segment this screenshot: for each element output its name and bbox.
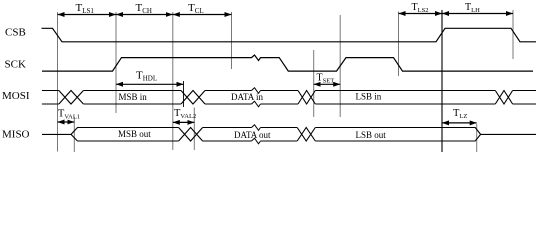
- marker line M7: [398, 12, 400, 77]
- arrow T_LZ: [442, 122, 477, 124]
- marker line S3: [193, 108, 195, 151]
- marker line S1: [183, 81, 185, 107]
- arrow T_LS1: [58, 14, 117, 16]
- marker line M5: [313, 50, 315, 117]
- arrow T_VAL1: [58, 121, 75, 123]
- svg-text:SCK: SCK: [5, 59, 26, 71]
- marker line M2: [115, 12, 117, 113]
- marker line S2: [73, 117, 75, 152]
- MOSI crossover XX4: [495, 91, 512, 105]
- svg-text:MOSI: MOSI: [2, 90, 30, 102]
- MOSI crossover XX2: [181, 91, 205, 105]
- marker line M3: [172, 12, 174, 150]
- marker line M4: [231, 12, 233, 69]
- marker line S4: [476, 124, 478, 152]
- arrow T_LS2: [399, 13, 443, 15]
- svg-text:DATA out: DATA out: [234, 130, 271, 140]
- svg-text:MISO: MISO: [2, 129, 30, 141]
- svg-text:MSB in: MSB in: [119, 92, 148, 102]
- marker line M9: [512, 10, 514, 59]
- signal SCK waveform: [42, 55, 533, 71]
- MOSI crossover XX1: [59, 91, 84, 105]
- MOSI break marks: [252, 88, 261, 107]
- MISO break marks: [252, 125, 261, 144]
- svg-text:DATA in: DATA in: [231, 92, 264, 102]
- arrow T_VAL2: [173, 121, 195, 123]
- marker line M8: [441, 10, 443, 152]
- signal CSB waveform: [42, 28, 536, 42]
- arrow T_CH: [116, 14, 173, 16]
- svg-text:LSB out: LSB out: [356, 130, 387, 140]
- signal MISO waveform: [42, 128, 536, 142]
- marker line M1: [57, 12, 59, 152]
- svg-text:LSB in: LSB in: [356, 92, 382, 102]
- svg-text:MSB out: MSB out: [118, 129, 151, 139]
- arrow T_SET: [314, 83, 341, 85]
- svg-text:CSB: CSB: [5, 26, 26, 38]
- marker line M6: [339, 15, 341, 117]
- MOSI crossover XX3: [298, 91, 315, 105]
- arrow T_HDL: [116, 83, 184, 85]
- MISO crossover XX2: [179, 128, 203, 142]
- MISO crossover XX3: [297, 128, 315, 142]
- signal MOSI bus top: [42, 90, 536, 92]
- signal MOSI bus bottom: [42, 103, 536, 105]
- arrow T_CL: [173, 14, 232, 16]
- arrow T_LH: [442, 13, 513, 15]
